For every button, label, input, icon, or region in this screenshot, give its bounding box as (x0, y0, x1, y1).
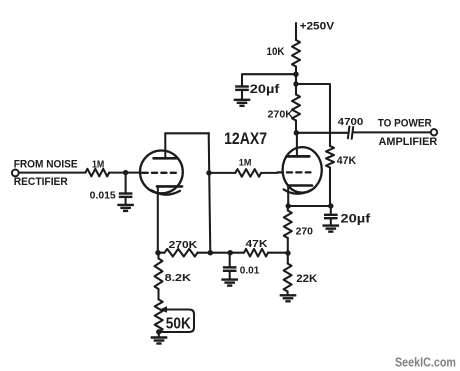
junction bottom rail / feedback line (208, 250, 213, 255)
resistor 8.2K (155, 259, 163, 290)
capacitor 0.01 (223, 267, 237, 270)
wire 8.2K to 50K (157, 289, 159, 300)
svg-text:12AX7: 12AX7 (224, 130, 267, 148)
resistor 1M (input) (85, 169, 109, 177)
svg-text:270: 270 (296, 225, 314, 237)
svg-text:50K: 50K (166, 316, 191, 333)
terminal output (431, 129, 437, 135)
capacitor 0.01 stem (229, 253, 231, 268)
capacitor 4700 (348, 127, 350, 139)
terminal input (12, 170, 19, 177)
junction input / 0.015 / grid V1 (123, 170, 128, 175)
capacitor 20uf (cathode bypass) (324, 215, 338, 218)
ground (234, 100, 251, 106)
op V1 triode envelope (12AX7 section A) (140, 151, 183, 194)
wire cathode node to 20uf (288, 205, 331, 207)
V1 grid (dashed) (143, 172, 180, 174)
V1 plate lead (164, 133, 166, 158)
junction 270 / 22K / bottom rail (285, 250, 290, 255)
V1 cathode lead (157, 186, 159, 252)
junction cathode V1 / 270K / 8.2K (155, 250, 160, 255)
svg-text:0.01: 0.01 (240, 266, 260, 277)
wire to 8.2K (157, 253, 159, 259)
capacitor 0.015 (119, 194, 133, 197)
ground (323, 226, 340, 232)
junction cathode V2 node (286, 203, 291, 208)
svg-text:20µf: 20µf (340, 211, 371, 225)
resistor R 270K (top) (292, 95, 300, 121)
junction 50K wiper / ground (156, 329, 161, 334)
resistor 47K (bottom) (244, 249, 268, 257)
wire cap to output terminal (354, 131, 431, 133)
wire 22K to ground (287, 292, 289, 296)
resistor 270K (bottom) (165, 249, 198, 257)
svg-text:20µf: 20µf (250, 82, 281, 96)
svg-text:10K: 10K (267, 46, 285, 58)
wire 270K to plate node (295, 121, 297, 133)
svg-text:SeekIC.com: SeekIC.com (395, 355, 456, 369)
resistor 22K (284, 264, 292, 292)
svg-text:270K: 270K (169, 239, 198, 251)
wire 1M to grid V1 (109, 172, 142, 174)
wire 47K bottom to cathode node (329, 168, 331, 207)
wire 1M tap to zigzag (209, 172, 235, 174)
wire 270 to junction (287, 238, 289, 264)
junction node A 47K branch tap (293, 81, 298, 86)
junction plate V2 / 270K / output (294, 130, 299, 135)
wire bottom rail left (158, 252, 165, 254)
junction 0.01 tap (228, 250, 233, 255)
V2 plate (286, 155, 309, 158)
wire V1 plate top run (165, 132, 209, 134)
wire bottom rail mid (198, 252, 245, 254)
wire 1M to grid V2 (261, 172, 277, 174)
ground (151, 338, 168, 344)
wire plate node to coupling cap (296, 132, 347, 134)
op V2 triode envelope (12AX7 section B) (283, 147, 322, 193)
resistor 47K (right) (326, 146, 334, 168)
V1 cathode (152, 186, 182, 194)
svg-text:0.015: 0.015 (90, 191, 116, 202)
capacitor 0.015 stem (125, 173, 127, 194)
node +250V supply stub (295, 23, 297, 40)
wire input to 1M (19, 172, 86, 174)
wire bottom rail right (268, 252, 288, 254)
wire cathode into 270 (287, 206, 289, 211)
svg-text:FROM NOISE: FROM NOISE (14, 159, 78, 171)
V2 cathode (284, 186, 312, 194)
svg-text:TO POWER: TO POWER (378, 118, 432, 130)
wiper loop around 50K label (159, 310, 194, 333)
svg-text:8.2K: 8.2K (165, 273, 192, 284)
svg-text:270K: 270K (268, 109, 294, 121)
V2 plate lead (296, 133, 298, 157)
svg-text:4700: 4700 (338, 117, 364, 128)
V2 cathode lead (287, 186, 289, 206)
junction 1M tap on feedback line (206, 170, 211, 175)
svg-text:22K: 22K (296, 273, 317, 285)
junction node A 20uf tap (293, 72, 298, 77)
wire vertical feedback line (209, 133, 211, 252)
svg-text:47K: 47K (337, 155, 356, 167)
resistor 270 (284, 211, 292, 239)
wire node A to 47K top (296, 84, 330, 146)
wire B+ between 10K and 270K (295, 67, 297, 95)
svg-text:RECTIFIER: RECTIFIER (14, 176, 68, 188)
wire node A to 20uf branch (242, 74, 296, 86)
ground (221, 280, 238, 286)
ground (117, 205, 134, 211)
V1 plate (154, 157, 177, 160)
wire 50K to ground (158, 332, 160, 338)
resistor 1M (interstage) (235, 169, 261, 177)
svg-text:+250V: +250V (300, 20, 335, 32)
ground (280, 295, 297, 301)
svg-text:1M: 1M (239, 158, 252, 168)
svg-text:AMPLIFIER: AMPLIFIER (379, 136, 438, 148)
capacitor 20uf (top) (235, 87, 249, 90)
svg-text:47K: 47K (246, 238, 268, 250)
resistor 10K (292, 40, 300, 67)
V2 grid (dashed) (278, 171, 311, 173)
potentiometer 50K (155, 300, 163, 332)
wiper arrow 50K (160, 306, 168, 312)
svg-text:1M: 1M (92, 159, 105, 171)
junction 20uf bypass / 47K bottom (328, 203, 333, 208)
